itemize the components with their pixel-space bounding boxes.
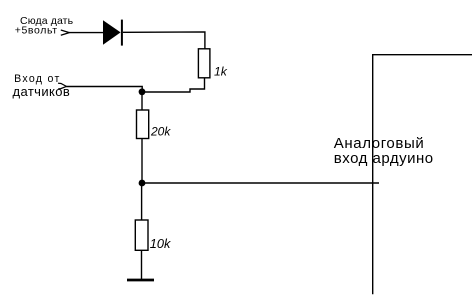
wire diode cathode to top-right corner	[123, 32, 205, 49]
svg-text:датчиков: датчиков	[13, 84, 71, 99]
wire R1 bottom to node A	[142, 78, 205, 92]
wire node B down to R3	[141, 183, 143, 220]
diode D1 triangle	[103, 20, 121, 45]
svg-text:20k: 20k	[150, 125, 171, 139]
arduino box outline	[373, 55, 472, 295]
wire R2 bottom to node B	[141, 139, 143, 184]
node B junction dot	[139, 180, 146, 187]
wire chevron to diode anode	[69, 32, 104, 34]
svg-text:вход ардуино: вход ардуино	[334, 150, 434, 167]
connector chevron sensor input	[58, 83, 66, 89]
node A junction dot	[139, 88, 146, 95]
svg-text:1k: 1k	[214, 65, 228, 79]
diode D1 cathode bar	[121, 20, 123, 46]
wire node B to arduino box	[142, 182, 379, 184]
resistor R3 body	[135, 220, 148, 250]
svg-text:+5вольт: +5вольт	[15, 25, 58, 37]
svg-text:10k: 10k	[150, 236, 171, 251]
wire sensor input to node A	[66, 87, 142, 92]
resistor R1 body	[198, 49, 210, 78]
resistor R2 body	[137, 110, 149, 139]
connector chevron +5V input	[61, 30, 70, 35]
wire R3 bottom to ground	[141, 250, 143, 279]
wire node A down to R2	[141, 92, 143, 111]
ground	[127, 279, 154, 282]
